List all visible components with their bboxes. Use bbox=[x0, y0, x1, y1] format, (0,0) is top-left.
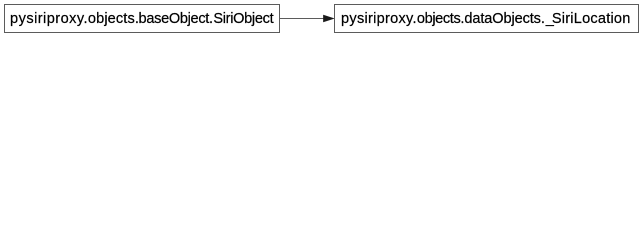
svg-text:pysiriproxy.: pysiriproxy. bbox=[10, 11, 88, 27]
svg-text:objects.: objects. bbox=[417, 11, 465, 27]
class node SiriObject (base class box) bbox=[5, 5, 280, 33]
svg-text:SiriLocation: SiriLocation bbox=[552, 11, 631, 27]
background bbox=[0, 0, 643, 37]
svg-text:pysiriproxy.: pysiriproxy. bbox=[341, 11, 417, 27]
svg-text:dataObjects.: dataObjects. bbox=[464, 11, 545, 27]
svg-text:SiriObject: SiriObject bbox=[213, 11, 273, 27]
label pysiriproxy.objects.dataObjects._SiriLocation bbox=[341, 11, 630, 27]
class node _SiriLocation (derived class box) bbox=[335, 5, 639, 33]
arrowhead bbox=[324, 15, 334, 22]
svg-text:objects.: objects. bbox=[88, 11, 139, 27]
label pysiriproxy.objects.baseObject.SiriObject bbox=[10, 11, 274, 27]
inheritance edge wire bbox=[280, 18, 324, 20]
svg-text:baseObject.: baseObject. bbox=[139, 11, 214, 27]
